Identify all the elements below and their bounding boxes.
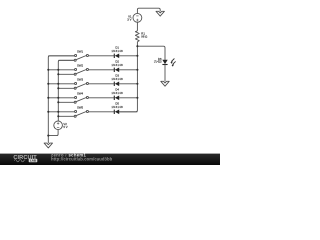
junction +5 bus stub3 (57, 87, 59, 89)
wire stub from +5V bus to SW4 lower throw (58, 101, 74, 103)
voltage source V2 5V (54, 121, 68, 130)
wire stub from +5V bus to SW5 lower throw (58, 115, 74, 117)
watermark bar (0, 154, 220, 165)
wire SW5 to diode D5 (88, 111, 114, 113)
+5V bus wire (second vertical) (58, 60, 74, 116)
svg-text:SW1: SW1 (77, 50, 84, 54)
junction +5 bus stub2 (57, 73, 59, 75)
junction +5 bus row5 (57, 111, 59, 113)
junction gnd bus row3 (47, 83, 49, 85)
switch SW3 (74, 78, 88, 90)
switch SW2 (74, 64, 88, 76)
wire V1 bottom to resistor R1 (136, 22, 138, 31)
svg-text:1N4148: 1N4148 (111, 49, 123, 53)
diode D2 1N4148 (111, 59, 123, 72)
wire stub from +5V bus to SW1 lower throw (58, 59, 74, 61)
diode D5 1N4148 (111, 101, 123, 114)
junction bus row2 (136, 69, 138, 71)
junction bus row4 (136, 97, 138, 99)
LED D6 LTL-4223 (154, 57, 176, 67)
wire diode D3 to LED bus (119, 83, 137, 85)
ground bottom left (44, 143, 52, 148)
junction gnd bus row5 (47, 111, 49, 113)
svg-text:http://circuitlab.com/caud3bb: http://circuitlab.com/caud3bb (51, 157, 113, 162)
junction LED bus node (136, 45, 138, 47)
wire stub from +5V bus to SW2 lower throw (58, 73, 74, 75)
wire row 2 from ground bus to switch SW2 (48, 69, 75, 71)
CircuitLab logo (13, 155, 37, 163)
svg-text:1N4148: 1N4148 (111, 77, 123, 81)
wire LED branch from bus node (137, 46, 165, 60)
wire diode D5 to LED bus (119, 111, 137, 113)
wire row 4 from ground bus to switch SW4 (48, 97, 75, 99)
junction bus row3 (136, 83, 138, 85)
wire V2 top to +5V bus (57, 116, 59, 121)
svg-text:1N4148: 1N4148 (111, 63, 123, 67)
resistor R1 98 ohm (135, 31, 147, 42)
wire row 3 from ground bus to switch SW3 (48, 83, 75, 85)
svg-text:5 V: 5 V (63, 125, 67, 129)
svg-text:SW4: SW4 (77, 92, 84, 96)
svg-text:98 Ω: 98 Ω (141, 35, 147, 39)
wire SW4 to diode D4 (88, 97, 114, 99)
junction gnd bus row2 (47, 69, 49, 71)
svg-text:LTL-4223: LTL-4223 (154, 60, 162, 64)
wire diode D1 to LED bus (119, 55, 137, 57)
wire V1 top to ground (137, 8, 160, 13)
junction bus row1 (136, 55, 138, 57)
svg-text:SW3: SW3 (77, 78, 84, 82)
wire LED to ground (164, 64, 166, 81)
junction +5 bus row4 (57, 97, 59, 99)
voltage source V1 3V (127, 13, 142, 22)
wire R1 to LED bus and bus down to row 5 (119, 42, 137, 112)
svg-text:SW5: SW5 (77, 106, 84, 110)
switch SW1 (74, 50, 88, 62)
ground bottom right (161, 81, 169, 86)
diode D3 1N4148 (111, 73, 123, 86)
wire diode D2 to LED bus (119, 69, 137, 71)
junction +5 bus row3 (57, 83, 59, 85)
wire SW1 to diode D1 (88, 55, 114, 57)
wire V2 bottom to ground bus (48, 130, 58, 136)
svg-text:1N4148: 1N4148 (111, 105, 123, 109)
wire row 5 from ground bus to switch SW5 (48, 111, 75, 113)
svg-text:LAB: LAB (30, 159, 36, 163)
svg-text:1N4148: 1N4148 (111, 91, 123, 95)
junction +5 bus stub4 (57, 101, 59, 103)
diode D1 1N4148 (111, 45, 123, 58)
switch SW5 (74, 106, 88, 118)
svg-text:SW2: SW2 (77, 64, 84, 68)
diode D4 1N4148 (111, 87, 123, 100)
svg-text:3 V: 3 V (127, 17, 131, 21)
switch SW4 (74, 92, 88, 104)
junction +5 bus row2 (57, 69, 59, 71)
wire diode D4 to LED bus (119, 97, 137, 99)
junction gnd bus V2 return (47, 135, 49, 137)
ground top right (156, 11, 164, 16)
wire row 1 from ground bus to switch SW1 (48, 55, 75, 57)
wire stub from +5V bus to SW3 lower throw (58, 87, 74, 89)
junction gnd bus row4 (47, 97, 49, 99)
ground bus wire (left) (48, 56, 75, 143)
wire SW3 to diode D3 (88, 83, 114, 85)
wire SW2 to diode D2 (88, 69, 114, 71)
junction +5 bus V2 node (57, 115, 59, 117)
